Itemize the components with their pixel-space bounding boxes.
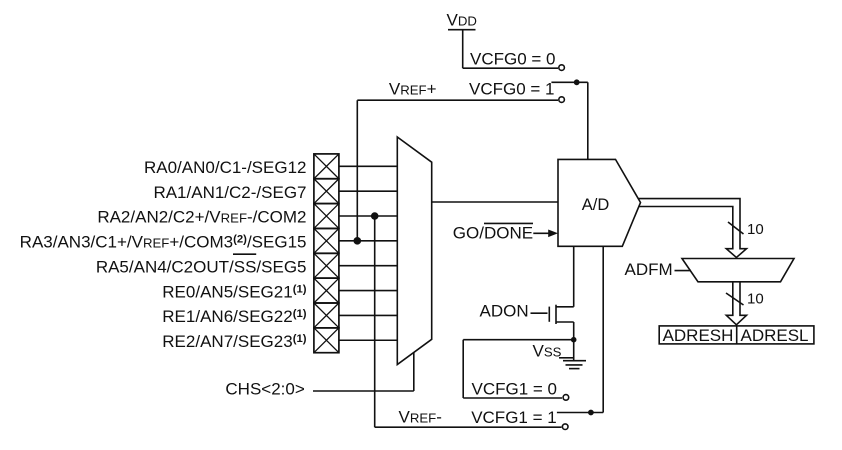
svg-text:ADON: ADON <box>480 302 529 321</box>
svg-text:VCFG0 = 0: VCFG0 = 0 <box>470 49 556 68</box>
svg-text:CHS<2:0>: CHS<2:0> <box>225 380 304 399</box>
svg-text:RA5/AN4/C2OUT/SS/SEG5: RA5/AN4/C2OUT/SS/SEG5 <box>96 257 307 276</box>
svg-text:VDD: VDD <box>447 10 477 29</box>
svg-text:RE1/AN6/SEG22(1): RE1/AN6/SEG22(1) <box>162 307 306 326</box>
svg-text:VCFG1 = 1: VCFG1 = 1 <box>471 408 557 427</box>
svg-text:RA3/AN3/C1+/VREF+/COM3(2)/SEG1: RA3/AN3/C1+/VREF+/COM3(2)/SEG15 <box>20 233 307 252</box>
svg-text:10: 10 <box>747 221 764 238</box>
svg-text:VCFG1 = 0: VCFG1 = 0 <box>472 380 558 399</box>
svg-text:A/D: A/D <box>582 196 610 214</box>
svg-text:VREF+: VREF+ <box>389 80 437 99</box>
svg-text:RA1/AN1/C2-/SEG7: RA1/AN1/C2-/SEG7 <box>153 183 306 202</box>
svg-text:ADFM: ADFM <box>625 260 673 279</box>
svg-text:RA0/AN0/C1-/SEG12: RA0/AN0/C1-/SEG12 <box>144 158 307 177</box>
svg-text:GO/DONE: GO/DONE <box>453 224 533 243</box>
svg-text:VREF-: VREF- <box>399 408 442 427</box>
svg-text:RA2/AN2/C2+/VREF-/COM2: RA2/AN2/C2+/VREF-/COM2 <box>97 208 306 227</box>
svg-text:VSS: VSS <box>533 342 562 361</box>
svg-text:10: 10 <box>747 291 764 308</box>
svg-text:VCFG0 = 1: VCFG0 = 1 <box>469 80 555 99</box>
svg-text:ADRESH: ADRESH <box>663 326 734 345</box>
svg-text:ADRESL: ADRESL <box>740 326 808 345</box>
svg-text:RE0/AN5/SEG21(1): RE0/AN5/SEG21(1) <box>162 282 306 301</box>
svg-text:RE2/AN7/SEG23(1): RE2/AN7/SEG23(1) <box>162 332 306 351</box>
